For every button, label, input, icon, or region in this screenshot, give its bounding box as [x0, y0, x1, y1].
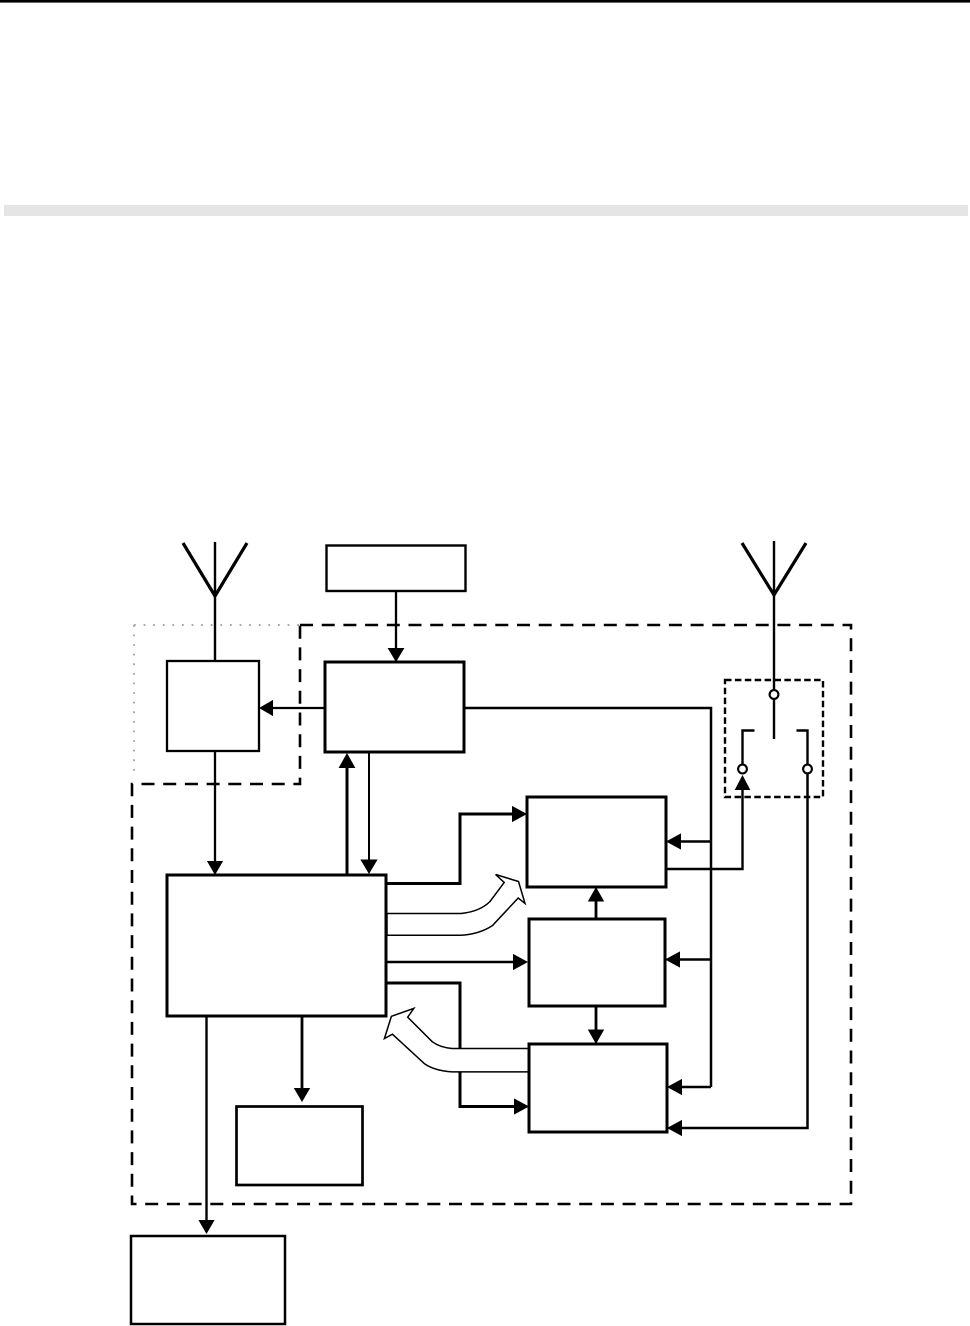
switch pole wire — [773, 700, 775, 740]
hollow arrow (box F toward box C, up-left) — [384, 1008, 529, 1072]
switch left throw bracket — [743, 731, 755, 765]
box A: antenna coupler (left square) — [167, 661, 259, 751]
dashed boundary (main unit) — [132, 625, 851, 1204]
header bar — [4, 205, 968, 216]
wire: box C to box D (up-right L) — [386, 806, 527, 884]
wire arrow into box D right edge — [666, 833, 711, 849]
wire: switch right contact down to box F right edge — [667, 774, 808, 1136]
box C: main controller block — [167, 875, 386, 1016]
switch right throw bracket — [797, 731, 808, 765]
wire arrow: box B to box A — [259, 700, 325, 716]
page top rule — [0, 0, 970, 3]
box: top reference block — [327, 546, 466, 592]
wire arrow: box B down to box C (right vertical) — [360, 752, 377, 874]
wire: box B right to vertical bus x=711 — [464, 708, 711, 1087]
wire arrow into box F right edge (from bus) — [667, 1079, 711, 1095]
box D: right column block 1 — [527, 797, 666, 887]
wire arrow: box C to box E — [386, 954, 528, 970]
wire: box D right to switch contact (up arrow) — [666, 775, 750, 869]
wire arrow: box C up to box B (left vertical) — [339, 753, 356, 875]
antenna ANT1 (left) — [183, 542, 247, 661]
switch left throw contact circle — [738, 765, 747, 774]
wire: box C to box F (down-right L) — [386, 983, 529, 1115]
wire arrow: box E up to box D — [588, 887, 604, 919]
dotted boundary (grey) top-left region — [134, 625, 300, 777]
hollow arrow (box C toward box D, up-right) — [387, 875, 525, 936]
wire: antenna ANT1 into box A handled by mast; box A down to box C with arrow — [207, 751, 223, 875]
box F: right column block 3 — [529, 1044, 667, 1132]
box E: right column block 2 — [529, 919, 665, 1006]
wire arrow: top box down to box B — [388, 591, 405, 662]
box B: upper center block — [325, 662, 464, 752]
switch right throw contact circle — [803, 765, 812, 774]
antenna ANT2 (right) — [742, 541, 806, 690]
box G: bottom external block — [131, 1236, 285, 1324]
box H: small block below box C — [237, 1107, 363, 1186]
switch pole contact circle — [770, 690, 779, 699]
wire: box C bottom down to box G with arrow — [198, 1016, 214, 1234]
wire arrow into box E right edge — [665, 951, 711, 967]
switch S1 dashed enclosure — [725, 680, 823, 797]
wire arrow: box E down to box F — [588, 1006, 604, 1044]
wire: box C bottom down to box H with arrow — [294, 1016, 310, 1102]
